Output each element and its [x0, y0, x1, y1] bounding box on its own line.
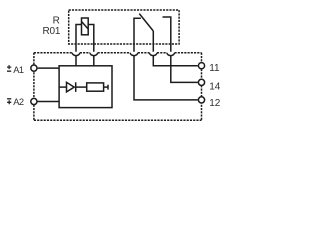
boundary hop over coil wire A2 side — [90, 53, 98, 56]
contact 14 NO fixed contact with hook — [163, 17, 171, 52]
polarity mark plus-minus at A1 — [7, 65, 11, 71]
outer module dashed boundary: left edge — [33, 53, 35, 121]
svg-text:14: 14 — [209, 81, 221, 92]
terminal A1 circle — [31, 65, 37, 71]
lead resistor to end tick — [104, 86, 108, 88]
relay R01 inner dashed enclosure — [69, 10, 179, 44]
coil armature staple — [76, 25, 94, 66]
polarity mark minus-plus at A2 — [7, 99, 11, 105]
resistor R (series) — [87, 83, 104, 91]
outer module dashed boundary: top edge segments between wire hops — [34, 52, 202, 54]
svg-text:R: R — [53, 15, 60, 26]
terminal 14 circle — [198, 79, 204, 85]
svg-text:R01: R01 — [42, 26, 60, 37]
diode D1 triangle — [67, 82, 75, 92]
boundary hop over coil wire A1 side — [72, 53, 80, 56]
wire from NO contact to terminal 14 — [171, 56, 198, 83]
wire from NC contact to terminal 12 — [134, 56, 198, 100]
wire terminal A1 to suppressor box — [38, 67, 59, 69]
diode D1 cathode bar — [75, 82, 77, 92]
contact moving arm (common) — [139, 14, 153, 31]
relay coil (rect with diagonal) — [82, 18, 89, 35]
svg-text:A2: A2 — [13, 97, 24, 107]
terminal 12 circle — [198, 97, 204, 103]
terminal 11 circle — [198, 63, 204, 69]
svg-text:A1: A1 — [13, 65, 24, 75]
lead end tick — [107, 85, 109, 90]
boundary hop over contact 14 wire — [167, 53, 175, 56]
lead diode to resistor — [76, 86, 87, 88]
svg-text:12: 12 — [209, 98, 221, 109]
outer module dashed boundary: right edge — [201, 53, 203, 121]
contact 12 NC fixed contact with hook — [134, 18, 141, 51]
boundary hop over contact 12 wire — [130, 53, 138, 56]
svg-text:11: 11 — [209, 63, 220, 74]
wire terminal A2 to suppressor box — [38, 101, 59, 103]
wire from common to terminal 11 — [153, 31, 198, 66]
terminal A2 circle — [31, 98, 37, 104]
suppressor module box — [59, 66, 112, 108]
outer module dashed boundary: bottom edge — [34, 119, 202, 121]
lead box edge to diode anode — [59, 86, 67, 88]
boundary hop over contact 11 wire — [149, 53, 157, 56]
